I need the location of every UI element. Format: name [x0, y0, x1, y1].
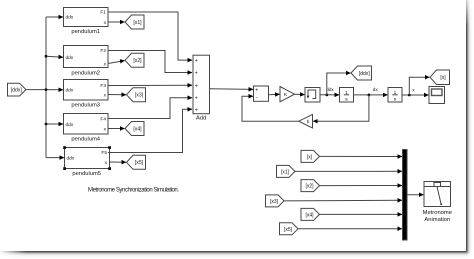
svg-text:x: x — [104, 93, 107, 98]
svg-text:+: + — [195, 71, 198, 77]
junction bus-p4 — [45, 123, 48, 126]
svg-text:[x4]: [x4] — [305, 212, 314, 218]
junction dx branch — [368, 94, 371, 97]
svg-text:[x]: [x] — [440, 75, 446, 81]
svg-text:+: + — [255, 88, 258, 94]
wire pendulum2 x to goto x2 — [108, 61, 125, 64]
wire integrator2 to scope — [402, 94, 429, 96]
from tag [x3] — [266, 195, 285, 207]
wire feedback down to gain b — [313, 95, 369, 121]
wire x to mux — [320, 155, 403, 157]
from tag [x4] — [301, 208, 320, 220]
wire Add to sum — [210, 88, 254, 91]
subsystem pendulum4 — [64, 114, 109, 143]
svg-text:x: x — [104, 62, 107, 67]
svg-text:Metronome: Metronome — [423, 210, 452, 216]
sum block (+/-) — [254, 86, 269, 101]
svg-text:[ddx]: [ddx] — [359, 71, 370, 77]
mux — [403, 150, 408, 241]
svg-text:F2: F2 — [100, 48, 106, 54]
svg-text:ddx: ddx — [326, 87, 334, 92]
wire x2 to mux — [320, 185, 403, 187]
svg-text:+: + — [195, 107, 198, 113]
junction x branch — [408, 94, 411, 97]
from tag [x2] — [301, 180, 320, 192]
svg-text:ddx: ddx — [66, 15, 74, 21]
svg-text:dx: dx — [373, 87, 379, 92]
svg-text:[x3]: [x3] — [135, 93, 144, 99]
svg-text:[x1]: [x1] — [133, 20, 142, 26]
svg-text:Metronome Synchronization Simu: Metronome Synchronization Simulation. — [88, 188, 179, 194]
wire gain to escapement — [295, 93, 305, 95]
goto tag [x2] — [125, 53, 144, 67]
svg-text:F3: F3 — [100, 83, 106, 89]
svg-text:ddx: ddx — [67, 155, 75, 161]
wire x3 to mux — [284, 199, 402, 202]
from tag [x5] — [280, 223, 299, 235]
wire bus to pendulum1 — [46, 16, 63, 18]
scope — [429, 87, 445, 104]
junction bus-p2 — [45, 55, 48, 58]
wire pendulum3 F3 to Add in3 — [108, 84, 192, 86]
subsystem pendulum2 — [64, 46, 109, 77]
wire bus to pendulum3 — [46, 89, 63, 91]
goto tag [ddx] — [351, 66, 372, 80]
svg-text:Animation: Animation — [424, 217, 450, 223]
wire x1 to mux — [295, 170, 402, 172]
junction ddx branch — [325, 94, 328, 97]
wire x5 to mux — [298, 228, 402, 230]
goto tag [x] — [430, 70, 450, 85]
wire ddx tag to bus — [26, 89, 46, 91]
svg-text:pendulum4: pendulum4 — [71, 136, 100, 142]
svg-text:[x]: [x] — [307, 154, 313, 160]
svg-text:K: K — [284, 92, 288, 98]
svg-text:+: + — [195, 83, 198, 89]
wire mux to animation — [407, 194, 423, 196]
block Metronome Animation — [423, 182, 452, 224]
goto tag [x3] — [127, 88, 146, 102]
wire x4 to mux — [320, 213, 403, 215]
from tag [ddx] — [8, 83, 27, 96]
wire pendulum1 x to goto x1 — [108, 21, 125, 23]
integrator1 1/s — [340, 88, 354, 103]
wire branch to goto ddx — [327, 73, 351, 95]
svg-text:−: − — [256, 95, 259, 101]
wire escapement to integrator1 — [320, 94, 339, 96]
svg-text:[ddx]: [ddx] — [11, 88, 23, 94]
from tag [x1] — [277, 165, 296, 177]
svg-text:ddx: ddx — [66, 55, 74, 61]
wire bus to pendulum4 — [46, 123, 63, 125]
gain K — [280, 87, 295, 102]
svg-text:[x5]: [x5] — [135, 160, 144, 166]
wire pendulum3 x to goto x3 — [108, 94, 126, 96]
svg-text:x: x — [104, 127, 107, 132]
wire pendulum1 F1 to Add in1 — [108, 12, 192, 60]
wire ddx distribution bus — [45, 17, 47, 158]
goto tag [x1] — [125, 15, 144, 29]
subsystem pendulum1 — [64, 8, 109, 36]
svg-text:F1: F1 — [100, 10, 106, 16]
svg-text:x: x — [105, 161, 108, 166]
svg-text:Add: Add — [196, 115, 206, 121]
subsystem pendulum3 — [64, 80, 109, 109]
svg-text:[x3]: [x3] — [270, 199, 279, 205]
wire pendulum4 x to goto x4 — [108, 128, 125, 130]
svg-text:F5: F5 — [101, 150, 107, 156]
wire pendulum4 F4 to Add in4 — [108, 98, 192, 119]
svg-text:[x2]: [x2] — [133, 58, 142, 64]
svg-text:+: + — [195, 96, 198, 102]
svg-text:b: b — [307, 119, 310, 124]
svg-text:+: + — [195, 58, 198, 64]
sum block Add — [193, 55, 210, 121]
junction bus-p3 — [45, 88, 48, 91]
svg-text:pendulum3: pendulum3 — [71, 102, 100, 108]
wire sum to gain K — [269, 93, 280, 96]
svg-text:[x4]: [x4] — [133, 126, 142, 132]
integrator2 1/s — [388, 88, 402, 103]
svg-text:F4: F4 — [100, 116, 106, 122]
svg-text:x: x — [412, 88, 415, 93]
goto tag [x5] — [127, 155, 146, 169]
svg-text:x: x — [104, 21, 107, 26]
wire pendulum5 x to goto x5 — [110, 161, 127, 163]
svg-text:ddx: ddx — [66, 88, 74, 94]
goto tag [x4] — [125, 122, 144, 136]
wire gain b to sum minus — [242, 96, 299, 121]
svg-text:pendulum2: pendulum2 — [71, 70, 100, 76]
wire pendulum2 F2 to Add in2 — [108, 51, 192, 73]
escapement block (loop icon) — [305, 88, 320, 103]
from tag [x] — [301, 150, 320, 162]
wire bus to pendulum5 — [46, 157, 64, 159]
wire branch to goto x — [409, 77, 429, 95]
wire bus to pendulum2 — [46, 56, 63, 57]
wire pendulum5 F5 to Add in5 — [108, 109, 192, 152]
svg-text:pendulum1: pendulum1 — [71, 29, 100, 35]
gain b — [299, 114, 313, 128]
svg-text:ddx: ddx — [66, 122, 74, 128]
svg-text:[x2]: [x2] — [305, 184, 314, 190]
svg-text:pendulum5: pendulum5 — [72, 171, 101, 177]
subsystem pendulum5 (selected) — [63, 146, 111, 177]
wire integrator1 to integrator2 — [354, 94, 388, 96]
svg-text:[x5]: [x5] — [284, 227, 293, 233]
svg-text:[x1]: [x1] — [281, 169, 290, 175]
